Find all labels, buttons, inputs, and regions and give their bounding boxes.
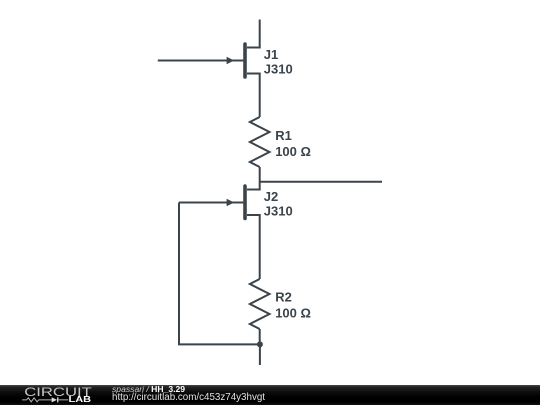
wire: stub below junction bbox=[259, 344, 261, 365]
transistor J1 gate arrow bbox=[227, 57, 235, 65]
wire: R2 bottom to junction bbox=[259, 329, 261, 344]
transistor J2 gate arrow bbox=[227, 199, 235, 207]
wire: J2 gate lead bbox=[179, 202, 243, 204]
svg-text:J2: J2 bbox=[264, 189, 278, 204]
footer text bbox=[0, 0, 540, 1]
logo resistor squiggle bbox=[22, 398, 51, 402]
CircuitLab logo bbox=[0, 385, 100, 405]
svg-text:100 Ω: 100 Ω bbox=[275, 306, 311, 321]
svg-text:J310: J310 bbox=[264, 61, 293, 76]
svg-text:R1: R1 bbox=[275, 128, 292, 143]
logo diode bbox=[52, 397, 57, 402]
wire: output node to the right bbox=[260, 181, 382, 183]
transistor J1 (n-JFET) channel bar bbox=[243, 44, 247, 77]
junction node dot bbox=[257, 341, 263, 347]
wire: J1 gate lead bbox=[158, 60, 244, 62]
svg-text:LAB: LAB bbox=[69, 395, 92, 404]
wire: J1 source to R1 top bbox=[247, 74, 260, 118]
transistor J2 (n-JFET) channel bar bbox=[243, 186, 247, 219]
wire: J1 drain up to top bbox=[247, 20, 260, 48]
wire: J2 source to R2 top bbox=[247, 215, 260, 279]
svg-text:R2: R2 bbox=[275, 290, 292, 305]
wire: feedback loop left and bottom bbox=[179, 203, 260, 345]
footer bar bbox=[0, 385, 540, 405]
resistor R1 bbox=[250, 117, 270, 167]
svg-text:100 Ω: 100 Ω bbox=[275, 144, 311, 159]
wire: R1 bottom to J2 drain bbox=[247, 167, 260, 190]
svg-text:J310: J310 bbox=[264, 204, 293, 219]
svg-text:J1: J1 bbox=[264, 47, 278, 62]
resistor R2 bbox=[250, 279, 270, 329]
